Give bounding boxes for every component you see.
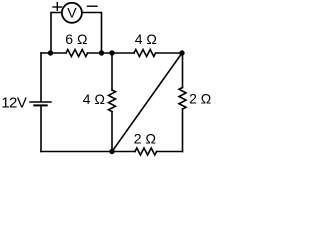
wire right vertical upper <box>182 53 184 88</box>
node junction dot (voltmeter tap right) <box>99 50 104 55</box>
node junction dot left (voltmeter tap left) <box>48 50 53 55</box>
svg-text:2 Ω: 2 Ω <box>134 130 156 146</box>
svg-text:6 Ω: 6 Ω <box>65 31 87 47</box>
resistor R 2ohm horizontal bottom <box>135 148 157 155</box>
wire top rail middle segment <box>88 52 134 54</box>
node junction dot (bottom middle) <box>109 149 114 154</box>
svg-text:4 Ω: 4 Ω <box>135 31 157 47</box>
wire top rail left segment <box>41 52 66 54</box>
svg-text:2 Ω: 2 Ω <box>189 90 211 106</box>
resistor R 4ohm horizontal top <box>134 50 156 57</box>
wire bottom rail right segment <box>157 151 183 153</box>
wire diagonal from top-right node to bottom-middle node <box>112 53 182 152</box>
battery 12V plate short <box>34 104 46 106</box>
wire right vertical lower <box>182 109 184 151</box>
resistor R 6ohm horizontal <box>66 50 88 57</box>
battery 12V plate long <box>30 101 51 103</box>
wire middle branch lower <box>111 112 113 152</box>
wire voltmeter loop left vertical <box>51 13 62 54</box>
wire top rail right segment <box>156 52 182 54</box>
svg-text:12V: 12V <box>1 94 27 111</box>
voltmeter V1 circle <box>62 3 82 23</box>
voltmeter plus terminal mark <box>53 6 62 8</box>
svg-text:V: V <box>67 5 77 21</box>
wire middle branch upper <box>111 53 113 90</box>
voltmeter minus terminal mark <box>88 5 98 7</box>
wire bottom rail left segment <box>41 151 135 153</box>
wire left vertical upper (battery top lead) <box>40 53 42 101</box>
resistor R 2ohm vertical right <box>179 88 186 110</box>
node junction dot (top right corner) <box>179 50 184 55</box>
wire left vertical lower (battery bottom lead) <box>40 105 42 151</box>
resistor R 4ohm vertical middle <box>109 90 116 112</box>
wire voltmeter loop right vertical <box>82 13 101 54</box>
node junction dot (middle branch top) <box>109 50 114 55</box>
svg-text:4 Ω: 4 Ω <box>83 91 105 107</box>
